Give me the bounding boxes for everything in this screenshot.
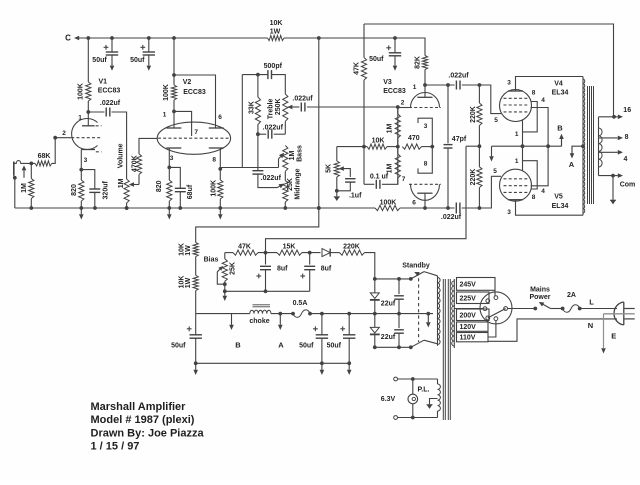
svg-text:3: 3 [424,123,428,130]
svg-text:5: 5 [494,117,498,124]
svg-text:1 / 15 / 97: 1 / 15 / 97 [91,441,140,453]
svg-text:L: L [589,298,594,307]
svg-text:470: 470 [408,135,420,142]
svg-text:2: 2 [401,99,405,106]
svg-text:Midrange: Midrange [295,168,302,199]
svg-text:245V: 245V [460,281,477,288]
svg-text:6: 6 [412,200,416,207]
svg-text:110V: 110V [460,335,476,342]
svg-text:225V: 225V [460,295,477,302]
svg-text:P.L.: P.L. [418,387,430,394]
svg-text:E: E [611,332,616,341]
svg-text:0.5A: 0.5A [293,300,308,307]
svg-text:Treble: Treble [268,98,275,119]
svg-text:100K: 100K [163,84,170,101]
svg-text:1: 1 [163,111,167,118]
svg-text:16: 16 [623,107,631,114]
svg-text:N: N [588,321,593,330]
svg-text:8uf: 8uf [277,266,288,273]
svg-text:470K: 470K [132,155,139,172]
svg-text:1: 1 [413,84,417,91]
svg-text:1M: 1M [386,123,393,133]
svg-text:8: 8 [212,157,216,164]
svg-text:5: 5 [493,168,497,175]
svg-text:.022uf: .022uf [100,100,121,107]
svg-text:3: 3 [84,157,88,164]
svg-text:3: 3 [507,79,511,86]
svg-text:B: B [557,124,563,133]
svg-text:47K: 47K [354,62,361,75]
svg-text:22uf: 22uf [381,334,396,341]
svg-text:1W: 1W [270,29,281,36]
svg-text:5K: 5K [326,164,333,173]
svg-text:25K: 25K [287,178,294,191]
svg-text:.022uf: .022uf [292,96,313,103]
svg-text:V3: V3 [383,79,392,86]
svg-text:50uf: 50uf [171,342,186,349]
svg-text:1: 1 [78,114,82,121]
svg-text:V1: V1 [99,79,108,86]
svg-text:Volume: Volume [117,143,124,168]
svg-text:.022uf: .022uf [448,72,469,79]
svg-text:4: 4 [623,156,627,163]
svg-text:50uf: 50uf [299,342,314,349]
svg-text:6.3V: 6.3V [381,396,396,403]
svg-text:10K: 10K [372,137,385,144]
svg-text:Standby: Standby [402,263,430,270]
svg-text:820: 820 [71,184,78,196]
svg-text:50uf: 50uf [327,342,342,349]
svg-text:25K: 25K [229,262,236,275]
svg-text:220K: 220K [470,106,477,123]
svg-text:8: 8 [532,194,536,201]
svg-text:15K: 15K [283,243,296,250]
svg-text:100K: 100K [380,199,397,206]
svg-text:Com: Com [620,182,636,189]
svg-text:Bass: Bass [296,145,303,162]
svg-text:1M: 1M [118,178,125,188]
svg-text:220K: 220K [343,243,360,250]
svg-text:B: B [235,341,241,350]
svg-text:2A: 2A [567,292,576,299]
svg-text:3: 3 [170,155,174,162]
svg-text:500pf: 500pf [264,63,283,70]
svg-text:250K: 250K [275,98,282,115]
svg-text:Drawn By: Joe Piazza: Drawn By: Joe Piazza [91,427,205,439]
svg-text:50uf: 50uf [130,57,145,64]
svg-text:7: 7 [402,176,406,183]
svg-text:4: 4 [541,97,545,104]
svg-text:C: C [65,33,71,42]
svg-text:1W: 1W [185,277,192,288]
svg-text:1M: 1M [21,183,28,193]
svg-text:Mains: Mains [530,286,550,293]
svg-text:100K: 100K [78,83,85,100]
svg-text:0.1 uf: 0.1 uf [370,174,389,181]
svg-text:820: 820 [156,180,163,192]
svg-text:6: 6 [218,114,222,121]
svg-text:10K: 10K [270,20,283,27]
svg-text:.022uf: .022uf [441,214,462,221]
svg-text:1M: 1M [289,150,296,160]
svg-text:50uf: 50uf [369,56,384,63]
svg-text:7: 7 [194,129,198,136]
svg-text:8: 8 [625,134,629,141]
svg-text:47K: 47K [238,243,251,250]
svg-text:.022uf: .022uf [263,124,284,131]
svg-text:1: 1 [515,131,519,138]
svg-text:EL34: EL34 [552,203,569,210]
svg-text:320uf: 320uf [103,180,110,199]
svg-text:EL34: EL34 [552,90,569,97]
svg-text:V5: V5 [554,194,563,201]
svg-text:.1uf: .1uf [349,193,362,200]
svg-text:8: 8 [424,160,428,167]
svg-text:V2: V2 [183,79,192,86]
svg-text:ECC83: ECC83 [98,88,121,95]
svg-text:A: A [569,160,575,169]
svg-text:82K: 82K [415,56,422,69]
svg-text:A: A [278,341,284,350]
svg-text:1: 1 [515,158,519,165]
svg-text:8: 8 [532,89,536,96]
svg-text:68K: 68K [38,153,51,160]
svg-text:Marshall Amplifier: Marshall Amplifier [91,401,187,413]
svg-text:ECC83: ECC83 [383,88,406,95]
svg-text:120V: 120V [460,324,477,331]
svg-text:Power: Power [529,294,550,301]
svg-text:4: 4 [541,188,545,195]
svg-text:ECC83: ECC83 [183,89,206,96]
svg-text:1W: 1W [185,245,192,256]
svg-text:8uf: 8uf [321,266,332,273]
svg-text:choke: choke [249,318,269,325]
svg-text:220K: 220K [470,169,477,186]
svg-text:33K: 33K [249,101,256,114]
svg-text:50uf: 50uf [92,57,107,64]
svg-text:.022uf: .022uf [261,175,282,182]
svg-text:100K: 100K [210,180,217,197]
svg-text:1M: 1M [386,163,393,173]
svg-text:Model # 1987 (plexi): Model # 1987 (plexi) [91,414,195,426]
svg-text:3: 3 [507,209,511,216]
svg-text:200V: 200V [460,312,477,319]
svg-text:V4: V4 [554,81,563,88]
svg-text:Bias: Bias [204,256,219,263]
svg-text:2: 2 [62,130,66,137]
svg-text:68uf: 68uf [187,184,194,199]
svg-text:22uf: 22uf [381,300,396,307]
svg-text:47pf: 47pf [452,136,467,143]
